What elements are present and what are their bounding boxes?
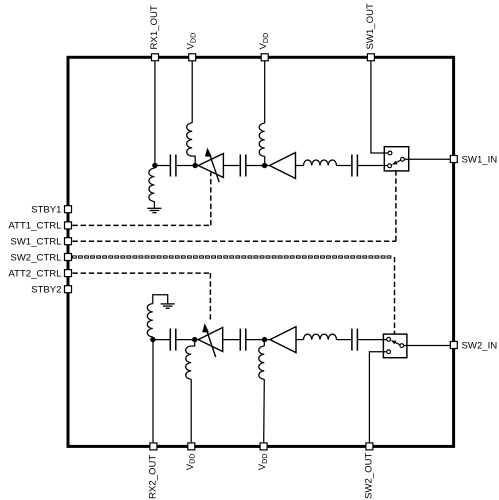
wire SW2_OUT pin to switch SW2	[369, 352, 386, 443]
inductor L6 (VDD choke)	[186, 346, 191, 379]
amplifier U2 (LNA)	[270, 327, 296, 353]
wire C2 to node C1	[246, 165, 270, 167]
wire node C2 to inductor L7	[263, 340, 265, 346]
wire C6 to switch SW2	[357, 339, 386, 341]
variable attenuator ATT2	[198, 328, 223, 358]
dashed control line SW1_CTRL vertical	[395, 171, 397, 241]
wire node A2 to RX2_OUT pin	[152, 340, 154, 443]
wire ATT2 to capacitor C5	[223, 339, 241, 341]
wire C4 to node B2	[176, 339, 198, 341]
svg-text:RX1_OUT: RX1_OUT	[149, 5, 160, 49]
dotted control line SW2_CTRL horizontal	[73, 256, 391, 258]
switch SW1 box	[384, 147, 408, 171]
wire RX1_OUT to node A1	[154, 62, 156, 166]
dashed control line ATT2_CTRL vertical	[209, 273, 211, 321]
dashed control line ATT2_CTRL horizontal	[72, 272, 210, 274]
node A2 junction	[150, 337, 155, 342]
variable attenuator ATT1	[198, 154, 223, 183]
capacitor C2	[240, 155, 246, 177]
svg-text:ATT2_CTRL: ATT2_CTRL	[8, 268, 62, 279]
node C2 junction	[262, 337, 267, 342]
node B2 junction	[192, 337, 197, 342]
wire C5 to node C2	[246, 339, 270, 341]
wire node A1 to capacitor C1	[155, 165, 171, 167]
node A1 junction	[152, 163, 157, 168]
switch SW1 pole contact (to SW1_IN)	[401, 157, 405, 161]
pin SW1_CTRL	[10, 237, 71, 248]
node B1 junction	[193, 163, 198, 168]
wire L2 to node B1	[192, 156, 195, 165]
dashed control line SW2_CTRL vertical	[394, 257, 396, 334]
switch SW2 throw contact (to LNA chain)	[387, 337, 391, 341]
switch SW2 pole contact (to SW2_IN)	[400, 344, 404, 348]
wire L4 to capacitor C3	[337, 165, 352, 167]
wire U2 to inductor L8	[296, 339, 304, 341]
svg-text:STBY1: STBY1	[31, 205, 61, 216]
dashed control line SW1_CTRL horizontal	[72, 240, 396, 242]
svg-text:SW1_CTRL: SW1_CTRL	[10, 237, 62, 248]
attenuator ATT2 arrowhead	[202, 323, 209, 332]
wire L8 to capacitor C6	[337, 339, 352, 341]
capacitor C5	[240, 329, 246, 351]
amplifier U1 (LNA)	[270, 153, 296, 179]
svg-text:SW2_IN: SW2_IN	[462, 340, 498, 351]
switch SW2 throw contact (to SW2_OUT)	[387, 350, 391, 354]
inductor L1 (shunt to ground)	[149, 168, 155, 201]
wire node A2 to capacitor C4	[153, 339, 170, 341]
pin SW2_IN	[450, 340, 497, 351]
wire VDD pin to inductor L2	[191, 62, 193, 123]
wire VDD pin to inductor L3	[264, 62, 266, 124]
pin STBY2	[31, 285, 71, 296]
svg-text:ATT1_CTRL: ATT1_CTRL	[8, 221, 62, 232]
switch SW1 throw contact (to SW1_OUT)	[388, 151, 392, 155]
svg-text:SW2_CTRL: SW2_CTRL	[10, 252, 62, 263]
inductor L4 (series)	[304, 160, 337, 166]
pin VDD (top 1)	[186, 33, 198, 61]
wire L1 to ground	[153, 202, 155, 209]
svg-text:STBY2: STBY2	[31, 285, 61, 296]
pin STBY1	[31, 205, 71, 216]
wire L7 to VDD pin	[263, 379, 266, 442]
node C1 junction	[262, 163, 267, 168]
wire switch SW1 to SW1_IN pin	[404, 158, 450, 160]
capacitor C1	[170, 155, 176, 177]
pin SW1_IN	[450, 154, 497, 165]
pin RX2_OUT	[147, 443, 158, 499]
switch SW2 box	[383, 334, 407, 358]
inductor L3 (VDD choke)	[259, 123, 265, 156]
wire C1 to node B1	[176, 165, 198, 167]
switch SW1 throw contact (to LNA chain)	[388, 164, 392, 168]
wire L5 to ground GND2	[153, 295, 168, 304]
capacitor C4	[170, 329, 176, 351]
pin SW2_OUT	[363, 443, 374, 499]
wire SW1_OUT pin to switch SW1	[371, 62, 388, 154]
ground GND2	[161, 304, 175, 308]
switch SW1 arm	[395, 160, 401, 163]
ground GND1	[147, 208, 161, 212]
capacitor C6	[352, 329, 358, 351]
inductor L7 (VDD choke)	[259, 346, 264, 379]
svg-text:RX2_OUT: RX2_OUT	[147, 455, 158, 499]
pin VDD (bottom 2)	[257, 443, 269, 470]
switch SW2 arm	[395, 342, 400, 345]
switch SW2 arm arrowhead	[391, 340, 397, 344]
svg-text:SW1_OUT: SW1_OUT	[365, 3, 376, 50]
chip boundary	[68, 57, 454, 446]
pin RX1_OUT	[149, 5, 160, 61]
pin SW2_CTRL	[10, 252, 71, 263]
wire U1 to inductor L4	[296, 165, 304, 167]
pin ATT1_CTRL	[8, 221, 71, 232]
wire C3 to switch SW1	[357, 165, 388, 167]
inductor L8 (series)	[304, 334, 337, 340]
inductor L5 (shunt to ground)	[147, 304, 152, 337]
wire node B2 to inductor L6	[191, 340, 195, 346]
wire L6 to VDD pin	[190, 379, 192, 442]
svg-text:SW1_IN: SW1_IN	[462, 154, 498, 165]
dashed control line ATT1_CTRL vertical	[210, 172, 212, 225]
dashed control line ATT1_CTRL horizontal	[72, 224, 210, 226]
attenuator ATT1 arrowhead	[205, 148, 212, 157]
wire switch SW2 to SW2_IN pin	[404, 345, 450, 347]
pin VDD (bottom 1)	[185, 443, 197, 470]
capacitor C3	[352, 155, 358, 177]
pin ATT2_CTRL	[8, 268, 71, 279]
svg-text:SW2_OUT: SW2_OUT	[363, 452, 374, 499]
wire L3 to node C1	[264, 156, 266, 165]
pin VDD (top 2)	[258, 33, 270, 61]
switch SW1 arm arrowhead	[392, 161, 398, 165]
pin SW1_OUT	[365, 3, 376, 61]
wire ATT1 to capacitor C2	[223, 165, 240, 167]
inductor L2 (VDD choke)	[187, 123, 193, 156]
